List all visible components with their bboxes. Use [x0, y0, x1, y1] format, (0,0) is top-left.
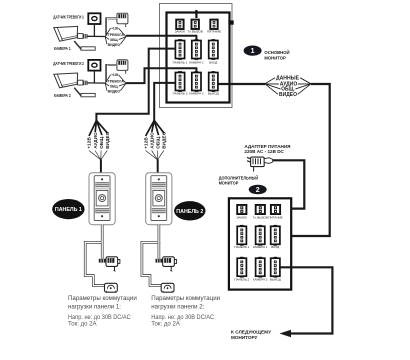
label to next monitor [231, 330, 271, 340]
connector VHOD (main) [209, 39, 218, 64]
svg-text:нагрузки панели 2:: нагрузки панели 2: [151, 304, 204, 311]
panel fan 2 converge lines [146, 151, 164, 160]
svg-text:ПАНЕЛЬ 2: ПАНЕЛЬ 2 [176, 209, 203, 215]
svg-text:ОСНОВНОЙ: ОСНОВНОЙ [264, 50, 289, 55]
badge PANEL 1 [52, 199, 84, 219]
camera 1 icon [54, 26, 88, 41]
group 1: alarm sensor 1 label [53, 15, 84, 20]
svg-text:ДАТЧИК ТРЕВОГИ 1: ДАТЧИК ТРЕВОГИ 1 [53, 15, 84, 20]
svg-text:220В AC - 12В DC: 220В AC - 12В DC [244, 149, 284, 154]
camera 1 label [54, 46, 71, 51]
svg-text:+12В: +12В [87, 137, 92, 149]
svg-text:Параметры коммутации: Параметры коммутации [151, 295, 220, 302]
power plug 2 [106, 60, 128, 82]
wire panel2 from main box to door panel 2 [154, 83, 175, 121]
panel fan 1 converge lines [89, 151, 107, 160]
svg-text:МОНИТОР: МОНИТОР [264, 55, 285, 60]
svg-text:2: 2 [256, 187, 260, 194]
svg-text:Параметры коммутации: Параметры коммутации [68, 295, 137, 302]
svg-text:ОБЩ.: ОБЩ. [99, 135, 104, 148]
arrowhead to next monitor [280, 330, 292, 338]
note panel 2 switching parameters [151, 295, 220, 328]
wire fan1 to panel1 [100, 159, 102, 173]
connector KAMERA2 (main) [189, 71, 204, 95]
badge 1 OSNOVNOY MONITOR [244, 46, 290, 61]
power adapter icon [247, 157, 273, 172]
svg-text:ВИДЕО: ВИДЕО [279, 92, 297, 98]
connector VHOD (add) [271, 225, 280, 249]
wire camera1 into box to KAMERA1 connector [126, 36, 196, 40]
svg-text:+12В: +12В [111, 25, 118, 30]
camera 2 bracket [74, 88, 95, 97]
panel fan 2 top lines [146, 120, 165, 136]
camera 2 cable [88, 82, 106, 84]
panel1 wire to lock adapter [101, 242, 104, 260]
main monitor terminal box U1 [167, 13, 230, 103]
panel2 lock loop wire (double conductor) [142, 225, 161, 286]
panel fan 1 top lines [89, 120, 108, 136]
wire sensor1 drop [93, 24, 95, 36]
svg-text:Ток: до 2А: Ток: до 2А [68, 321, 97, 328]
group 2: alarm sensor 2 label [53, 61, 84, 66]
wire additional monitor output to next monitor [280, 267, 333, 333]
svg-text:ВИДЕО: ВИДЕО [108, 42, 121, 47]
svg-text:КАМЕРА 1: КАМЕРА 1 [54, 46, 71, 51]
wire fan2 to panel2 [157, 159, 159, 173]
svg-text:ПИТАНИЕ: ПИТАНИЕ [207, 29, 221, 33]
alarm sensor 1 box [88, 13, 100, 24]
svg-text:+12В: +12В [111, 72, 118, 77]
svg-text:ВХОД: ВХОД [209, 60, 217, 64]
power adapter label [244, 144, 290, 154]
note panel 1 switching parameters [68, 295, 137, 328]
svg-text:ПАНЕЛЬ 1: ПАНЕЛЬ 1 [234, 245, 249, 249]
panel fan 1 vertical labels [87, 131, 110, 149]
output fan labels DANNYE AUDIO OBSHCH VIDEO [276, 76, 300, 99]
svg-text:нагрузки панели 1:: нагрузки панели 1: [68, 304, 121, 311]
connector CALL (add) [253, 205, 268, 219]
camera 2 label [54, 93, 71, 98]
svg-text:ПАНЕЛЬ 2: ПАНЕЛЬ 2 [234, 277, 249, 281]
panel1 lock loop wire (double conductor) [85, 225, 104, 286]
svg-text:ВИДЕО: ВИДЕО [162, 131, 167, 149]
svg-text:КАМЕРА 2: КАМЕРА 2 [189, 91, 204, 95]
electric lock 2 [161, 283, 174, 292]
connector KAMERA1 (add) [253, 225, 268, 249]
svg-text:ВИДЕО: ВИДЕО [105, 131, 110, 149]
svg-text:ОБЩ.: ОБЩ. [156, 135, 161, 148]
svg-text:АУДИО: АУДИО [149, 132, 154, 149]
svg-text:ДАТЧИК ТРЕВОГИ 2: ДАТЧИК ТРЕВОГИ 2 [53, 61, 84, 66]
camera 1 cable [88, 35, 106, 37]
wire adapter to additional monitor power [273, 160, 305, 208]
connector PANEL2 (main) [173, 71, 188, 95]
wire panel1 from main box to door panel 1 [96, 49, 175, 121]
svg-text:Тл.ВЫЗОВ: Тл.ВЫЗОВ [253, 215, 268, 219]
badge 2 DOPOLNITELNY MONITOR [219, 176, 267, 195]
svg-text:ЗАМОК: ЗАМОК [237, 215, 248, 219]
connector LOCK (add) [237, 205, 248, 219]
door panel 2 icon [146, 173, 172, 225]
output fan lines [265, 78, 311, 95]
fan lines group2 [105, 75, 126, 91]
fan labels group1 [108, 25, 124, 46]
svg-text:Тл.ВЫЗОВ: Тл.ВЫЗОВ [188, 29, 203, 33]
svg-text:ВИДЕО: ВИДЕО [108, 88, 121, 93]
svg-text:1: 1 [251, 48, 255, 55]
svg-text:КАМЕРА 1: КАМЕРА 1 [189, 60, 204, 64]
svg-text:ПАНЕЛЬ 2: ПАНЕЛЬ 2 [173, 91, 188, 95]
svg-text:КАМЕРА 2: КАМЕРА 2 [54, 93, 71, 98]
svg-text:+12В: +12В [143, 137, 148, 149]
svg-text:Ток: до 2А: Ток: до 2А [151, 321, 180, 328]
connector POWER (add) [268, 205, 282, 219]
power plug 1 [106, 13, 128, 35]
electric lock 1 [105, 283, 118, 292]
wire main monitor output to fan [218, 83, 265, 85]
door panel 1 icon [89, 173, 115, 225]
badge PANEL 2 [174, 201, 205, 220]
svg-text:АУДИО: АУДИО [93, 132, 98, 149]
lock power adapter 2 [156, 257, 177, 272]
panel fan 2 vertical labels [143, 131, 166, 149]
additional monitor terminal box U2 [229, 198, 291, 289]
svg-text:МОНИТОР: МОНИТОР [219, 180, 239, 185]
svg-text:ВЫХОД: ВЫХОД [208, 91, 219, 95]
svg-text:ЗАМОК: ЗАМОК [175, 29, 186, 33]
camera 1 bracket [74, 41, 95, 50]
connector CALL (main, top row 2) [188, 20, 203, 34]
svg-text:ПИТАНИЕ: ПИТАНИЕ [268, 215, 282, 219]
fan lines group1 [105, 28, 126, 44]
connector PANEL1 (main) [173, 39, 188, 64]
main monitor outline (thin case rectangle) [160, 4, 233, 108]
wire fan to additional monitor input [280, 84, 330, 236]
wire sensor2 drop [93, 71, 95, 83]
connector VYHOD (main) [208, 71, 219, 95]
panel2 wire to lock adapter [158, 242, 161, 260]
connector POWER (main, top row 3) [207, 20, 221, 34]
svg-text:МОНИТОРУ: МОНИТОРУ [231, 335, 258, 340]
wire camera2 into box to KAMERA2 connector [126, 68, 196, 83]
lock power adapter 1 [99, 257, 120, 272]
connector PANEL2 (add) [234, 257, 249, 282]
svg-text:КАМЕРА 1: КАМЕРА 1 [253, 245, 268, 249]
svg-text:ВЫХОД: ВЫХОД [270, 277, 281, 281]
connector PANEL1 (add) [234, 225, 249, 249]
connector LOCK (main, top row 1) [175, 20, 186, 34]
camera 2 icon [54, 73, 88, 88]
junction blob on right edge of main box [228, 20, 233, 24]
connector KAMERA1 (main) [189, 39, 204, 64]
svg-text:ПАНЕЛЬ 1: ПАНЕЛЬ 1 [55, 207, 82, 213]
alarm sensor 2 box [88, 60, 100, 71]
connector VYHOD (add) [270, 257, 281, 282]
connector KAMERA2 (add) [253, 257, 268, 282]
fan labels group2 [108, 72, 124, 93]
svg-text:ВХОД: ВХОД [271, 245, 279, 249]
svg-text:КАМЕРА 2: КАМЕРА 2 [253, 277, 268, 281]
svg-text:ПАНЕЛЬ 1: ПАНЕЛЬ 1 [173, 60, 188, 64]
wire stub at top of main box [195, 10, 197, 18]
